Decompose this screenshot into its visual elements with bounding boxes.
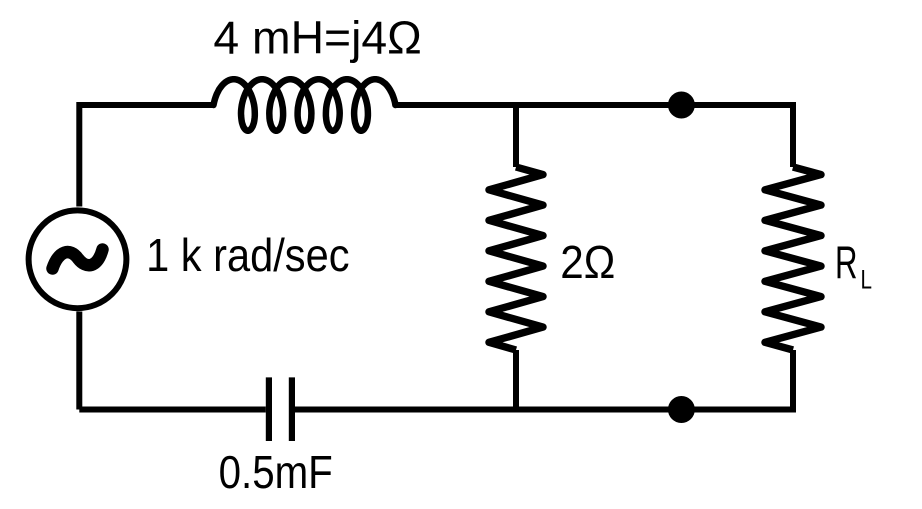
wire 2ohm branch bottom — [513, 350, 519, 413]
node dot top — [668, 92, 695, 119]
svg-text:4 mH=j4Ω: 4 mH=j4Ω — [213, 11, 421, 63]
wire right branch bottom — [790, 350, 796, 413]
node dot bottom — [668, 396, 695, 423]
wire 2ohm branch top — [513, 102, 519, 167]
wire top-left horizontal + left vertical upper — [79, 105, 213, 207]
resistor 2ohm zigzag — [489, 167, 543, 350]
svg-text:L: L — [861, 265, 873, 295]
inductor L1 coil — [214, 79, 396, 130]
resistor RL zigzag — [765, 167, 821, 350]
wire top middle (inductor to right corner) — [395, 102, 793, 108]
svg-text:1 k rad/sec: 1 k rad/sec — [146, 229, 349, 281]
svg-text:0.5mF: 0.5mF — [219, 446, 333, 498]
svg-text:R: R — [835, 236, 858, 288]
wire left vertical lower — [76, 312, 82, 410]
AC source V1 circle — [29, 210, 127, 308]
wire bottom right of capacitor — [295, 407, 793, 413]
AC source sine tilde — [53, 250, 103, 269]
capacitor C1 plate left — [266, 377, 272, 441]
capacitor C1 plate right — [289, 377, 295, 441]
wire bottom left (to capacitor) — [79, 407, 265, 413]
wire right branch top — [790, 102, 796, 167]
svg-text:2Ω: 2Ω — [560, 236, 615, 288]
